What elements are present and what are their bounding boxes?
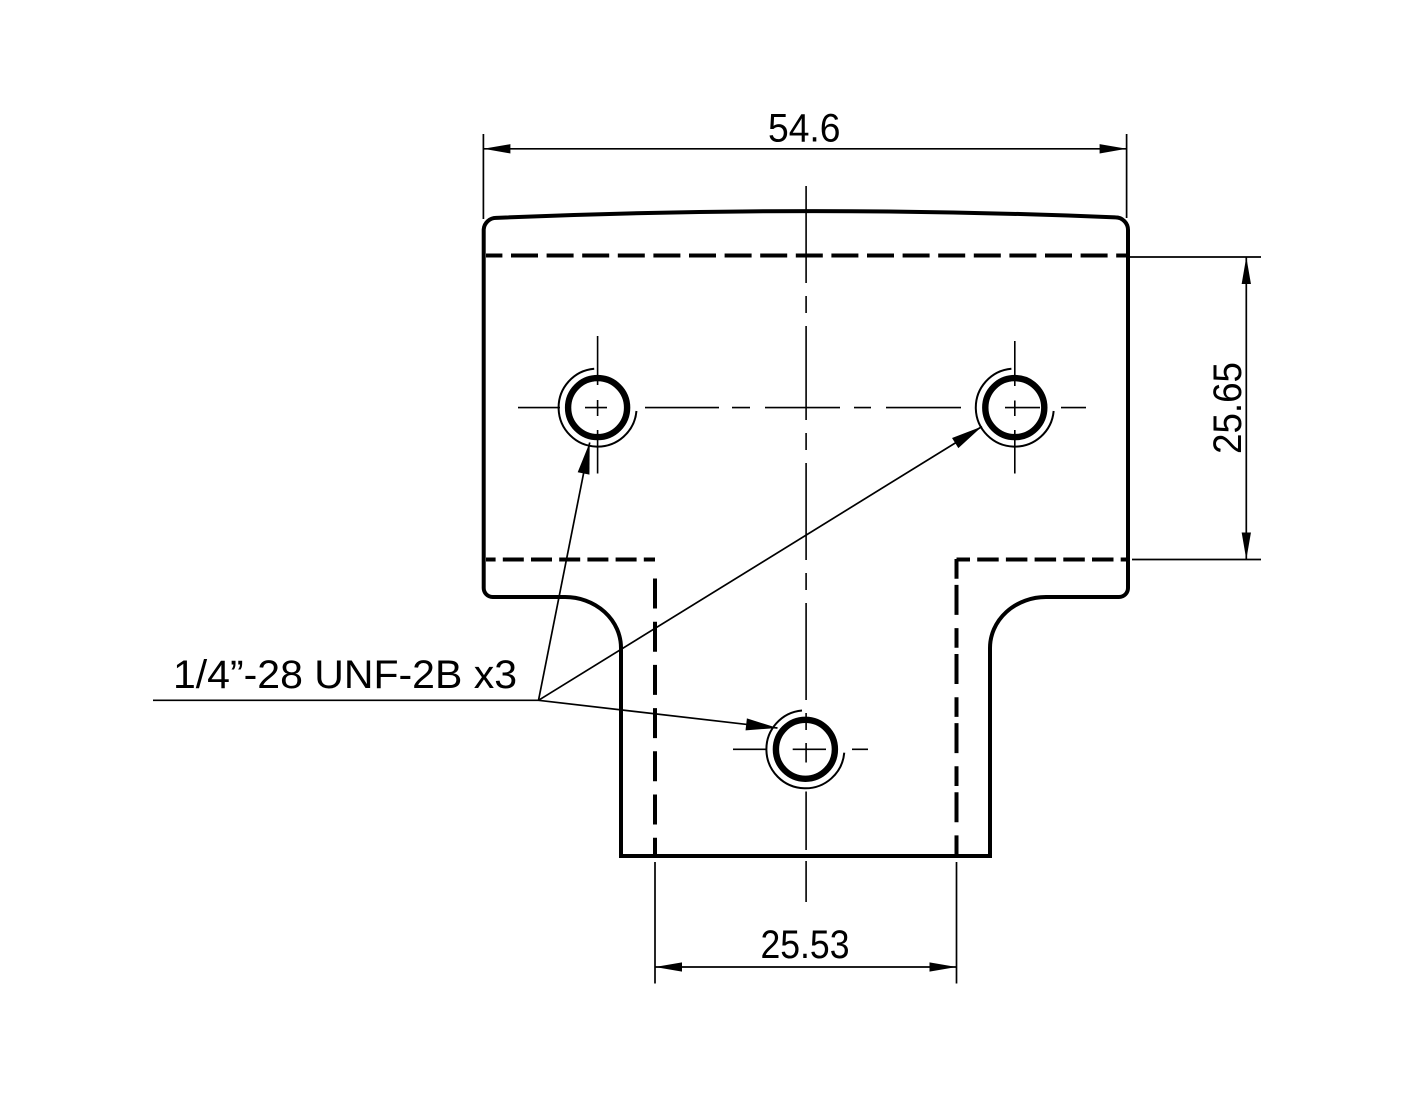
dim 25.53: arrowhead right	[930, 962, 957, 971]
dim 54.6: extension line right	[1126, 134, 1128, 218]
part outline (T-bracket body, visible edges)	[484, 211, 1128, 856]
tapped hole bottom: thread major dia arc	[766, 710, 844, 788]
hidden edge: stem side left (dashed)	[653, 579, 657, 857]
hidden edge: flange underside (dashed, full width)	[486, 254, 1126, 258]
dim 25.53: extension line left	[654, 862, 656, 984]
dim 25.53: dimension line	[655, 966, 957, 968]
centerline: right hole vertical	[1014, 341, 1016, 474]
tapped hole left: thread major dia arc	[559, 369, 637, 447]
leader branch to left hole	[539, 443, 590, 701]
dim 25.65: extension line bottom	[1132, 559, 1261, 561]
centerline: bottom hole horizontal	[733, 748, 868, 750]
tapped hole right: thread major dia arc	[976, 369, 1054, 447]
centerline: part vertical axis	[805, 186, 807, 902]
tapped hole left: minor dia circle	[568, 378, 627, 437]
dim 25.65: arrowhead bottom	[1242, 533, 1251, 560]
dim 25.65: extension line top	[1130, 256, 1261, 258]
leader arrowhead at right hole	[952, 427, 982, 449]
dim 25.65: dimension line	[1245, 257, 1247, 560]
dim 54.6: extension line left	[482, 134, 484, 219]
svg-text:1/4”-28 UNF-2B x3: 1/4”-28 UNF-2B x3	[173, 653, 517, 697]
dim 54.6: arrowhead right	[1100, 144, 1127, 153]
svg-text:25.53: 25.53	[761, 923, 850, 967]
hidden edge: stem side right (dashed)	[955, 559, 959, 856]
tapped hole bottom: minor dia circle	[776, 720, 835, 779]
dim 25.53: extension line right	[956, 862, 958, 984]
tapped hole right: minor dia circle	[985, 378, 1044, 437]
dim 54.6: dimension line	[483, 148, 1126, 150]
dim 25.53: arrowhead left	[655, 962, 682, 971]
leader branch to bottom hole	[539, 700, 778, 728]
leader branch to right hole	[539, 427, 983, 701]
leader arrowhead at bottom hole	[746, 718, 778, 730]
dim 54.6: arrowhead left	[483, 144, 510, 153]
dim 25.65: arrowhead top	[1242, 257, 1251, 284]
svg-text:25.65: 25.65	[1206, 362, 1250, 454]
centerline: left hole vertical	[597, 336, 599, 474]
svg-text:54.6: 54.6	[768, 107, 841, 151]
leader: horizontal shoulder line	[153, 699, 539, 701]
leader arrowhead at left hole	[578, 443, 590, 475]
hidden edge: step plane right (dashed)	[957, 558, 1127, 562]
hidden edge: step plane left (dashed)	[486, 558, 655, 562]
centerline: upper holes horizontal axis	[518, 407, 1086, 409]
